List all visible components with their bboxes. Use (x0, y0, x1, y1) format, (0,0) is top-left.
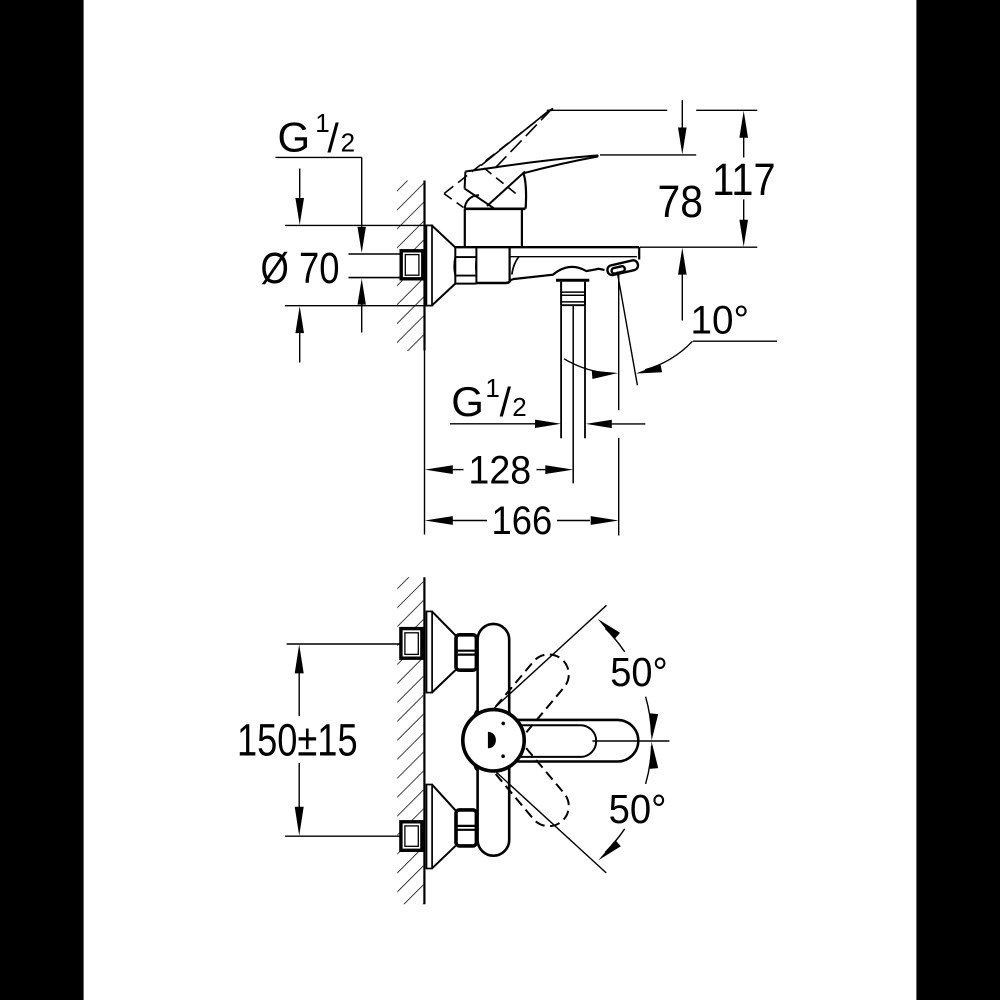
dimension 150+-15 (287, 643, 403, 645)
svg-text:G: G (278, 114, 311, 161)
dimension dia 70 (285, 224, 433, 226)
wall hatching (bottom view) (397, 577, 423, 904)
lower 50deg arc segment near vertex with arrow (646, 746, 652, 784)
temperature dots (501, 722, 505, 726)
shower hose connection pipe G1/2 (560, 305, 562, 438)
50 deg angle leg lower (494, 770, 606, 873)
svg-text:/: / (327, 115, 339, 161)
svg-text:2: 2 (512, 392, 526, 422)
deck top line (455, 246, 639, 248)
wall line (bottom view) (423, 577, 425, 904)
50 deg angle leg upper (494, 605, 607, 708)
top union square fitting (401, 629, 422, 659)
bottom connection nut (bold) (456, 810, 476, 846)
deck inner line (510, 256, 637, 258)
dimension 128 (425, 465, 453, 474)
bottom escutcheon flange (bottom view) (427, 785, 433, 869)
svg-text:50°: 50° (610, 649, 668, 695)
lever swung down 50deg (dashed) (486, 736, 577, 834)
lever swung up 50deg (dashed) (486, 646, 577, 744)
right black bar (916, 0, 1000, 1000)
logo blob on boss (488, 732, 496, 748)
pipe centerline (572, 305, 574, 483)
svg-text:10°: 10° (691, 298, 750, 342)
svg-text:G: G (451, 378, 484, 425)
wall hatching (top view) (397, 181, 424, 352)
svg-text:150±15: 150±15 (237, 714, 358, 765)
lever back edge ridge line (487, 172, 525, 207)
lever handle outer (bottom view) (482, 720, 638, 762)
escutcheon cone (top view) (432, 226, 455, 306)
dimension 166 (425, 516, 453, 525)
svg-text:78: 78 (658, 176, 704, 227)
lever raised position (dashed) (481, 110, 549, 165)
spout axis 10 deg slant line (617, 272, 637, 386)
connection nut (top view) (454, 247, 456, 283)
dimension 78 (681, 100, 683, 128)
bottom union square fitting (401, 822, 422, 851)
svg-text:117: 117 (712, 154, 775, 205)
svg-text:166: 166 (492, 499, 553, 543)
cartridge housing (top view) (464, 209, 466, 247)
spout root curve (512, 257, 519, 275)
lever handle inner contour (500, 725, 596, 757)
extension line deck level (640, 246, 757, 248)
spout axis vertical reference line (618, 272, 620, 411)
fillet arcs boss-handle/tube joints (514, 718, 520, 720)
faucet body block (top view) (509, 247, 511, 280)
body tube (bottom view) (478, 624, 510, 856)
lower 50deg arc segment with arrow at leg (605, 829, 624, 852)
top escutcheon flange (bottom view) (427, 611, 433, 692)
extension line top (117 upper ref) (547, 109, 668, 111)
aerator outer (tilted pill merging deck chamfer) (606, 259, 638, 276)
top connection nut (bold) (456, 635, 476, 670)
aerator inner pill (611, 266, 625, 274)
extension line lever tip (78 upper ref) (600, 154, 696, 156)
bottom escutcheon cone (432, 785, 456, 869)
dome cap under lever (465, 195, 479, 209)
upper 50deg arc segment with arrow at leg (605, 628, 624, 651)
square union fitting (top view) (401, 251, 423, 279)
lever handle (closed position) (465, 156, 596, 172)
lever axis centerline (592, 740, 669, 742)
10 deg leader arc from text with arrow at slant line (645, 341, 693, 370)
svg-text:1: 1 (485, 373, 499, 403)
shower outlet nipple (556, 279, 589, 282)
wall line (top view) (423, 181, 425, 351)
10 deg angle arc (left, with arrow at vertical line) (564, 359, 604, 373)
svg-text:Ø 70: Ø 70 (261, 244, 340, 293)
upper 50deg arc segment near vertex with arrow (646, 697, 652, 735)
svg-text:/: / (500, 379, 512, 425)
top escutcheon cone (432, 612, 456, 693)
escutcheon flange on wall (top view) (426, 225, 432, 305)
svg-text:50°: 50° (609, 786, 667, 832)
left black bar (0, 0, 84, 1000)
wall extension line continued below (for 128/166 dims) (424, 351, 426, 535)
deck right edge (638, 247, 640, 259)
svg-text:128: 128 (468, 448, 531, 492)
svg-text:2: 2 (341, 128, 355, 158)
spout bottom contour with dome hump (511, 267, 605, 280)
supply stub pipe in wall (349, 254, 403, 278)
lever boss circle (bold, covers inner lines) (463, 710, 524, 771)
dimension 117 (739, 111, 748, 138)
